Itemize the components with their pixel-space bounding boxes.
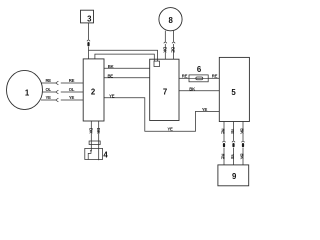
svg-text:2: 2 <box>91 88 96 97</box>
wire BE from 8 to 7 <box>171 31 176 60</box>
svg-text:8: 8 <box>169 16 174 25</box>
wire BK from 2 to 7 <box>104 64 150 69</box>
svg-text:RE: RE <box>212 74 218 79</box>
svg-text:4: 4 <box>103 150 108 159</box>
svg-text:BK: BK <box>240 154 245 161</box>
wire YE from 1 to 2 <box>41 95 83 102</box>
wire RE from fuse 6 to 5 <box>208 74 219 79</box>
svg-text:RE: RE <box>69 78 75 83</box>
wire YE from 5 to 9 with bullet connector <box>230 122 235 165</box>
svg-text:YE: YE <box>230 154 235 160</box>
generator 1 <box>7 70 43 109</box>
wire BE from 2 to 7 <box>104 73 150 78</box>
svg-text:BK: BK <box>96 128 101 135</box>
svg-text:YE: YE <box>69 95 75 100</box>
svg-text:RE: RE <box>182 74 188 79</box>
connector square on top of 7 <box>154 61 160 66</box>
svg-text:9: 9 <box>232 172 237 181</box>
wire RE from 7 to fuse 6 <box>179 74 189 79</box>
svg-text:5: 5 <box>231 88 236 97</box>
wire RE from 1 to 2 <box>41 78 83 85</box>
svg-text:1: 1 <box>25 89 30 98</box>
svg-text:YE: YE <box>167 127 173 132</box>
wire BK from 8 to 7 <box>162 31 167 60</box>
HT wire 2 from 2 to spark plug 4 <box>96 121 101 160</box>
condenser 3 <box>81 10 94 23</box>
wire bus 1 from node on wire of 3 to connector on 7 <box>89 50 158 61</box>
svg-text:YE: YE <box>109 93 115 98</box>
svg-text:RE: RE <box>221 154 226 160</box>
svg-text:BE: BE <box>107 73 113 78</box>
svg-text:BK: BK <box>240 128 245 135</box>
control unit 7 <box>150 59 179 120</box>
svg-text:BK: BK <box>162 47 167 54</box>
battery 9 <box>218 165 249 186</box>
svg-text:7: 7 <box>163 87 167 96</box>
svg-text:3: 3 <box>87 15 92 24</box>
wire YE from 2 to 5 <box>104 93 219 131</box>
svg-text:RE: RE <box>221 128 226 134</box>
svg-text:OL: OL <box>45 87 51 92</box>
wire OL from 1 to 2 <box>43 87 84 94</box>
wire bus 2 from top of 2 to connector on 7 <box>95 54 154 61</box>
ignition coil 2 <box>83 59 104 121</box>
fuse 6 <box>189 65 208 82</box>
svg-text:BK: BK <box>88 128 93 135</box>
svg-text:6: 6 <box>197 65 202 74</box>
svg-text:BE: BE <box>171 47 176 53</box>
wire BK from 5 to 9 with bullet connector <box>240 122 245 165</box>
spark plug 4 <box>85 148 109 159</box>
wire RE from 5 to 9 with bullet connector <box>221 122 226 165</box>
horn 8 <box>159 8 182 31</box>
svg-text:OL: OL <box>69 87 75 92</box>
wire BK from 7 to 5 <box>179 86 219 91</box>
wire from 3 to 2 with bullet connector <box>87 23 90 59</box>
svg-text:YE: YE <box>230 129 235 135</box>
svg-text:YE: YE <box>46 95 52 100</box>
svg-text:YE: YE <box>202 107 208 112</box>
spark plug cap <box>89 141 100 145</box>
HT wire 1 from 2 to spark plug 4 <box>88 121 93 150</box>
svg-text:RE: RE <box>45 78 51 83</box>
switch 5 <box>219 57 249 121</box>
